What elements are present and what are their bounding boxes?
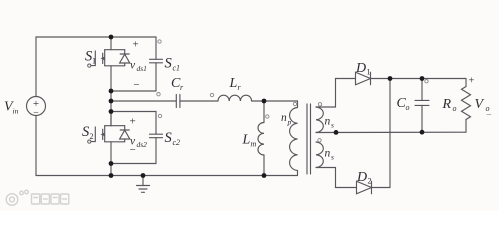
svg-text:−: − xyxy=(129,144,135,156)
node Lm bottom xyxy=(262,173,267,178)
svg-text:c1: c1 xyxy=(173,64,181,73)
node marker Sc1 bottom xyxy=(157,93,160,96)
wire Sc2 bottom rail xyxy=(111,163,156,165)
svg-text:n: n xyxy=(325,116,331,128)
label D1 xyxy=(355,61,371,77)
svg-text:L: L xyxy=(229,76,238,91)
svg-text:ds2: ds2 xyxy=(137,140,148,149)
node Co top xyxy=(420,76,425,81)
svg-text:1: 1 xyxy=(92,57,96,66)
body diode of S1 xyxy=(120,50,130,66)
node half-bridge midpoint xyxy=(109,99,114,104)
node marker secondary bottom dot xyxy=(318,139,321,142)
wire Lr to node A xyxy=(252,100,264,102)
svg-text:in: in xyxy=(13,107,19,116)
wire left input top xyxy=(35,37,37,97)
wire S2 drain xyxy=(110,112,112,126)
label Sc1 xyxy=(165,56,181,73)
svg-text:2: 2 xyxy=(90,132,94,141)
transformer secondary winding ns bottom xyxy=(316,142,357,188)
resistor Ro xyxy=(462,79,471,133)
label vds2 xyxy=(130,136,147,150)
label S1 xyxy=(85,49,96,66)
wire center tap to output bottom rail xyxy=(316,131,466,133)
svg-text:+: + xyxy=(132,39,138,51)
svg-text:+: + xyxy=(129,116,135,128)
label Lr xyxy=(229,76,242,92)
svg-text:o: o xyxy=(453,104,457,113)
source Vin xyxy=(27,97,46,116)
svg-text:c2: c2 xyxy=(173,138,181,147)
node marker primary dot xyxy=(293,102,296,105)
inductor Lr xyxy=(218,95,252,101)
wire half-bridge midpoint bus xyxy=(110,91,112,126)
node center tap xyxy=(334,130,339,135)
svg-text:m: m xyxy=(251,140,257,149)
capacitor Cr xyxy=(176,95,218,108)
node ground tap xyxy=(141,173,146,178)
svg-text:−: − xyxy=(33,108,39,119)
wire output top rail xyxy=(390,78,466,80)
svg-text:−: − xyxy=(486,110,492,121)
junction node dots xyxy=(109,35,425,178)
wire left input bottom xyxy=(35,116,37,176)
svg-text:v: v xyxy=(130,60,136,72)
transformer core xyxy=(307,104,311,174)
wire rectifier cathode bus xyxy=(389,79,391,188)
svg-text:D: D xyxy=(355,61,366,76)
node S1 source xyxy=(109,89,114,94)
node S2 source xyxy=(109,161,114,166)
svg-text:+: + xyxy=(469,76,475,87)
wire top rail xyxy=(36,36,156,38)
label S2 xyxy=(82,124,94,141)
label vds1 xyxy=(130,60,147,74)
inductor Lm xyxy=(258,101,264,176)
wire node A to primary xyxy=(264,100,298,102)
wire S1 source xyxy=(110,66,112,91)
node marker Sc2 top xyxy=(158,114,161,117)
node Co bottom xyxy=(420,130,425,135)
node marker Sc1 top xyxy=(158,40,161,43)
svg-text:−: − xyxy=(133,79,139,91)
node S1 drain on top rail xyxy=(109,35,114,40)
svg-text:D: D xyxy=(356,170,367,185)
wire Sc1 bottom rail xyxy=(111,90,156,92)
label Vo xyxy=(475,97,490,113)
node rectifier output xyxy=(388,76,393,81)
diode D2 xyxy=(357,181,391,194)
watermark xyxy=(6,190,69,205)
svg-text:n: n xyxy=(325,148,331,160)
ground xyxy=(137,176,150,193)
node marker Cr right xyxy=(210,93,213,96)
node marker secondary top dot xyxy=(318,103,321,106)
capacitor Sc2 xyxy=(150,112,163,164)
label ns bottom xyxy=(325,148,335,162)
label Lm xyxy=(242,133,257,149)
svg-text:S: S xyxy=(165,56,173,72)
label Co xyxy=(397,96,410,112)
label Cr xyxy=(171,76,184,92)
svg-text:R: R xyxy=(442,97,452,112)
body diode of S2 xyxy=(120,126,130,142)
node marker Co top xyxy=(425,80,428,83)
diode D1 xyxy=(336,72,391,85)
svg-text:n: n xyxy=(281,112,287,124)
svg-text:o: o xyxy=(406,103,410,112)
node A resonant tank xyxy=(262,99,267,104)
transistor Q1 S1 mosfet xyxy=(88,50,125,67)
capacitor Sc1 xyxy=(150,37,163,91)
svg-text:ds1: ds1 xyxy=(137,64,147,73)
wire S2 source xyxy=(110,142,112,164)
node S2 source ground rail xyxy=(109,173,114,178)
svg-text:1: 1 xyxy=(367,68,371,77)
label D2 xyxy=(356,170,372,186)
small terminal markers xyxy=(157,40,428,142)
svg-text:2: 2 xyxy=(368,177,372,186)
label ns top xyxy=(325,116,335,130)
node S2 drain xyxy=(109,109,114,114)
wire S1 drain xyxy=(110,37,112,50)
label Ro xyxy=(442,97,457,113)
svg-text:V: V xyxy=(475,97,485,112)
wire Sc2 top rail xyxy=(111,111,156,113)
transformer secondary winding ns top xyxy=(316,79,336,133)
wire bottom rail xyxy=(36,175,298,177)
label np xyxy=(281,112,292,127)
wire middle bus to Cr xyxy=(111,100,176,102)
svg-text:L: L xyxy=(242,133,251,148)
svg-text:p: p xyxy=(287,118,292,127)
svg-text:S: S xyxy=(165,130,173,146)
label Sc2 xyxy=(165,130,181,147)
svg-text:s: s xyxy=(331,153,334,162)
svg-text:s: s xyxy=(331,121,334,130)
wire S2 source to ground rail xyxy=(110,164,112,176)
label Vin xyxy=(4,100,19,116)
node marker Lm top xyxy=(266,115,269,118)
capacitor Co xyxy=(415,79,429,133)
transistor Q2 S2 mosfet xyxy=(88,126,125,144)
transformer primary winding np xyxy=(290,101,298,176)
